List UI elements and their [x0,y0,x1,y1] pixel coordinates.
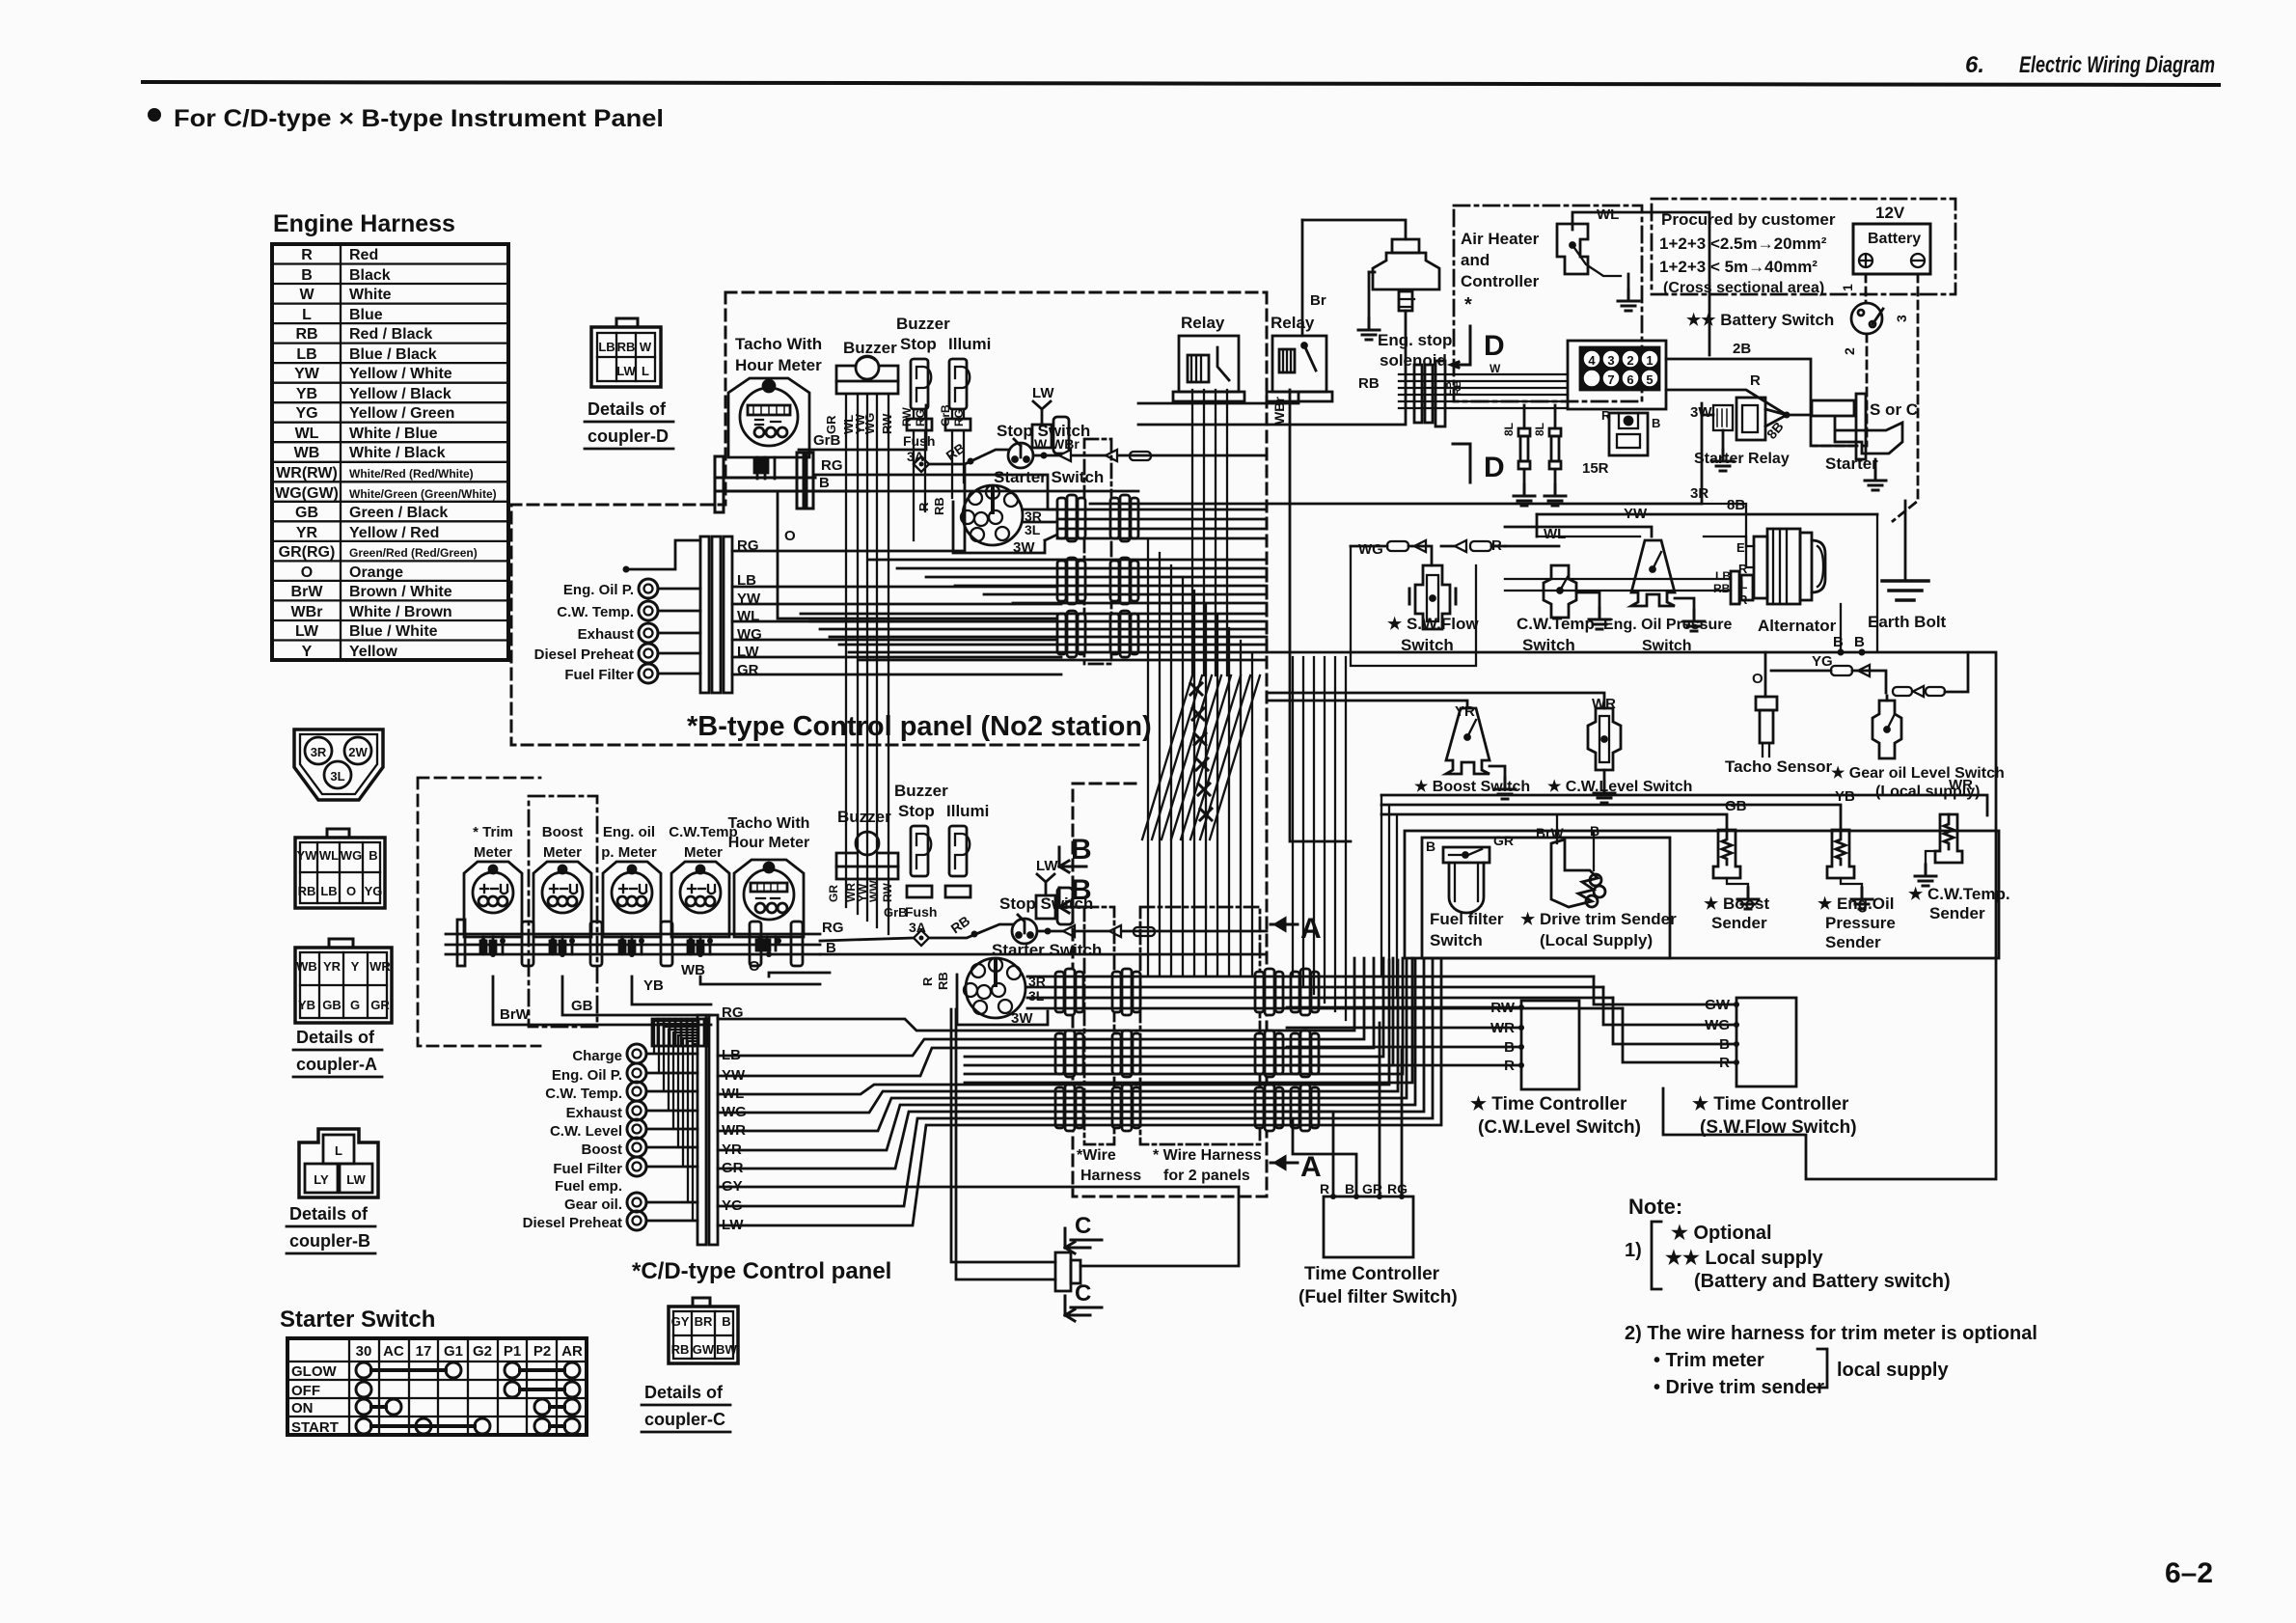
svg-text:★ Drive trim Sender: ★ Drive trim Sender [1520,910,1677,928]
engine coupler feed wires [1399,374,1568,408]
C/D left wire fan [654,1021,697,1221]
C/D meter * Trim [464,862,522,954]
C/D bus flange at 826 [791,922,803,966]
alternator terminal wires [1537,536,1754,546]
svg-text:1+2+3 <2.5m→20mm²: 1+2+3 <2.5m→20mm² [1659,234,1827,253]
svg-text:Hour Meter: Hour Meter [735,356,822,374]
svg-text:WL: WL [1597,206,1619,223]
S.W.Flow box [1351,546,1476,666]
svg-text:B: B [722,1314,730,1329]
battery minus terminal [1911,254,1925,267]
svg-text:Y: Y [351,959,360,974]
svg-text:White/Red (Red/White): White/Red (Red/White) [349,467,474,481]
C/D starter switch [964,958,1025,1018]
svg-text:Pressure: Pressure [1825,914,1896,932]
svg-text:2) The wire harness for trim m: 2) The wire harness for trim meter is op… [1625,1323,2037,1344]
svg-text:RB: RB [295,326,317,343]
fuse feed wires [1524,405,1555,428]
B-type stop switch wire to harness [1033,454,1267,457]
C.W.Level Switch symbol [1588,708,1621,770]
svg-text:WR: WR [369,959,391,974]
svg-text:LW: LW [295,623,319,640]
svg-text:8L: 8L [1533,423,1546,436]
svg-text:WB: WB [296,959,317,974]
Time Controller (C.W.Level Switch) box [1521,1001,1579,1089]
svg-text:Sender: Sender [1711,914,1767,932]
svg-text:WR(RW): WR(RW) [276,465,338,481]
svg-text:(Battery and Battery switch): (Battery and Battery switch) [1694,1271,1951,1292]
svg-text:• Drive trim sender: • Drive trim sender [1654,1377,1824,1398]
svg-text:Tacho Sensor: Tacho Sensor [1725,757,1833,776]
svg-text:3R: 3R [311,745,327,759]
svg-text:GW: GW [693,1342,715,1357]
svg-text:12V: 12V [1875,204,1905,222]
svg-text:C.W. Temp.: C.W. Temp. [557,604,634,620]
svg-text:LW: LW [346,1172,366,1187]
svg-text:Red: Red [349,247,378,263]
boost sender symbol [1713,830,1740,878]
svg-text:YB: YB [1835,788,1855,805]
svg-text:B: B [369,848,377,863]
svg-text:3L: 3L [1025,522,1041,537]
svg-text:WB: WB [294,445,320,461]
C/D bus end flange [457,920,465,966]
svg-text:Red / Black: Red / Black [349,326,432,343]
svg-text:BR: BR [695,1314,713,1329]
svg-text:17: 17 [416,1343,432,1360]
svg-text:Fuel emp.: Fuel emp. [555,1178,622,1195]
svg-text:Starter Relay: Starter Relay [1694,451,1790,467]
svg-text:GR: GR [827,885,840,902]
diagonal crossover bundle with crossing marks [1142,675,1260,839]
drive trim sender symbol [1551,839,1605,907]
C.W.Temp switch ground [1576,592,1599,608]
svg-text:GR: GR [737,662,759,678]
B-type starter switch frame [953,502,1045,553]
svg-text:GLOW: GLOW [291,1363,337,1380]
svg-text:Blue: Blue [349,307,383,323]
sensor terminal circle (Exhaust) [639,623,658,643]
svg-text:RB: RB [671,1342,690,1357]
svg-text:Illumi: Illumi [948,335,991,353]
svg-text:Air Heater: Air Heater [1461,230,1540,248]
svg-text:GB: GB [295,505,318,521]
svg-text:Eng. Oil P.: Eng. Oil P. [563,582,634,598]
svg-text:RG: RG [822,920,844,936]
svg-text:L: L [302,307,312,323]
svg-text:Hour Meter: Hour Meter [728,835,809,851]
svg-text:RW: RW [880,413,894,434]
svg-text:BrW: BrW [500,1006,531,1023]
svg-text:Engine Harness: Engine Harness [273,210,455,237]
svg-text:B: B [1854,634,1865,650]
relay drop wires [1192,390,1227,675]
svg-text:1: 1 [1646,353,1653,368]
svg-text:White / Black: White / Black [349,445,446,461]
note right bracket [1818,1349,1827,1388]
C/D terminal circle (Fuel Filter) [627,1157,646,1176]
B-type harness connector pair row y=602 [1057,558,1085,604]
svg-text:★ Boost: ★ Boost [1704,894,1769,913]
sensor terminal circle (Fuel Filter) [639,664,658,683]
svg-text:WL: WL [295,426,319,442]
air heater ground [1627,274,1630,289]
coupler-C connector (GY BR B / RB GW BW) [693,1298,710,1307]
gear oil connector pair [1893,687,1912,696]
svg-text:Alternator: Alternator [1758,617,1837,635]
C plug wires [951,1009,1055,1279]
eng stop solenoid [1373,239,1439,311]
crossover X marks [1190,683,1202,695]
svg-text:GR: GR [824,415,838,434]
svg-text:Tacho With: Tacho With [735,335,822,353]
B-type harness connector pair row y=657 [1057,611,1085,657]
svg-text:★ Time Controller: ★ Time Controller [1692,1094,1849,1114]
svg-text:AR: AR [561,1343,583,1360]
B-type harness bundle row3 [801,614,1267,660]
svg-text:Relay: Relay [1181,314,1225,332]
svg-text:Illumi: Illumi [946,802,989,820]
svg-text:8L: 8L [1502,423,1516,436]
battery switch [1851,303,1883,334]
svg-text:YB: YB [643,977,664,994]
svg-text:B: B [1833,634,1844,650]
svg-text:O: O [784,528,796,544]
eng oil pressure sender symbol [1827,830,1854,878]
svg-text:G2: G2 [473,1343,492,1360]
C/D terminal circle (Exhaust) [627,1101,646,1120]
svg-text:L: L [335,1143,342,1158]
svg-text:*Wire: *Wire [1077,1147,1116,1164]
svg-text:B: B [1345,1181,1354,1197]
svg-text:Time Controller: Time Controller [1304,1264,1440,1284]
svg-text:Details of: Details of [588,399,667,419]
svg-text:(Cross sectional area): (Cross sectional area) [1663,280,1824,296]
svg-text:WW: WW [867,880,881,902]
alternator LB RB connector [1731,571,1753,604]
solenoid feed wire [1302,220,1406,239]
battery wire 2 [1814,334,1867,446]
svg-text:Stop: Stop [900,335,937,353]
C/D vertical connector strip [697,1015,718,1245]
svg-text:B: B [819,475,830,491]
svg-text:Starter Switch: Starter Switch [994,468,1104,486]
15R protector [1609,413,1648,455]
B-type starter switch [961,485,1023,545]
Eng. Oil Pressure Switch symbol [1631,540,1675,606]
sensor terminal circle (C.W. Temp.) [639,601,658,620]
B-type harness bundle row1 [1057,509,1267,538]
svg-text:★ Gear oil Level Switch: ★ Gear oil Level Switch [1831,765,2005,782]
svg-text:YR: YR [296,525,318,541]
svg-text:R: R [1750,372,1761,389]
svg-text:coupler-B: coupler-B [289,1231,370,1251]
svg-text:Boost: Boost [542,824,584,840]
C/D harness bundle row3 [718,960,1441,1225]
fuel filter switch symbol [1443,847,1490,913]
svg-text:1): 1) [1625,1240,1642,1261]
air heater element [1557,224,1621,276]
C/D bus junction dots [480,938,486,944]
svg-text:GR: GR [370,998,390,1012]
svg-text:Yellow / Red: Yellow / Red [349,525,439,541]
main vertical trunk bundle [1148,540,1252,975]
svg-text:GrB: GrB [884,905,908,920]
starter ground [1874,459,1877,469]
svg-text:★ C.W.Level Switch: ★ C.W.Level Switch [1547,779,1692,795]
svg-text:LB: LB [296,346,316,363]
C/D buzzer [836,832,898,879]
C/D terminal circle (Eng. Oil P.) [627,1063,646,1083]
svg-text:Fush: Fush [903,433,935,449]
svg-text:RB: RB [1452,380,1463,396]
svg-text:Fuel Filter: Fuel Filter [564,667,634,683]
Boost Switch symbol [1446,708,1490,774]
B-type harness connector pair row y=537 [1057,495,1085,541]
coupler-D connector [591,318,661,387]
svg-text:O: O [1752,671,1763,687]
svg-text:6–2: 6–2 [2165,1557,2213,1589]
Starter Switch table contacts [356,1362,580,1434]
svg-text:RG: RG [952,409,966,426]
svg-text:Black: Black [349,267,391,284]
svg-text:Boost: Boost [582,1142,623,1158]
C/D illumi switch [945,826,970,897]
svg-text:WG: WG [1358,541,1383,558]
svg-text:Tacho With: Tacho With [728,815,810,832]
svg-text:WBr: WBr [291,604,323,620]
svg-text:for 2 panels: for 2 panels [1163,1168,1250,1184]
sensor terminal circle (Eng. Oil P.) [639,579,658,598]
svg-text:LB: LB [598,340,615,354]
svg-text:(C.W.Level Switch): (C.W.Level Switch) [1478,1117,1641,1138]
svg-text:YG: YG [295,405,317,422]
wire-harness outer dashed box [1073,292,1267,1197]
fuel filter / drive trim box [1422,838,1670,958]
svg-text:R: R [1601,408,1611,423]
starter motor [1812,394,1902,459]
svg-text:A: A [1300,1151,1322,1183]
svg-text:★★ Local supply: ★★ Local supply [1665,1248,1824,1269]
svg-text:Controller: Controller [1461,272,1540,290]
Eng Oil Pressure switch ground [1675,598,1694,610]
svg-text:GR(RG): GR(RG) [279,544,336,561]
C/D meter bus wires [446,934,820,954]
svg-text:LW: LW [616,364,636,378]
svg-text:(S.W.Flow Switch): (S.W.Flow Switch) [1700,1117,1857,1138]
C.W.Temp sender symbol [1935,814,1962,863]
battery [1853,224,1930,274]
svg-text:WL: WL [319,848,339,863]
svg-text:Meter: Meter [684,844,723,861]
svg-text:8B: 8B [1727,497,1745,513]
svg-text:Y: Y [302,644,313,660]
engine coupler flange [1414,361,1445,426]
starter relay to starter wires [1765,409,1810,426]
svg-text:LW: LW [1036,858,1058,874]
B-type tacho bus wires [715,453,868,512]
svg-text:O: O [346,884,356,898]
svg-text:Electric Wiring Diagram: Electric Wiring Diagram [2019,52,2215,78]
wire B bus [1267,652,1996,1179]
svg-text:Yellow / Black: Yellow / Black [349,386,451,402]
svg-text:Charge: Charge [572,1048,622,1064]
svg-text:Battery: Battery [1868,231,1921,247]
svg-text:YR: YR [1455,703,1475,720]
svg-text:G: G [350,998,360,1012]
svg-text:RB: RB [617,340,636,354]
svg-text:RW: RW [900,407,914,426]
svg-text:WG: WG [341,848,362,863]
svg-text:Fuel Filter: Fuel Filter [553,1161,622,1177]
battery plus terminal [1859,254,1872,267]
coupler-B connector (L / LY LW) [299,1129,378,1197]
air heater dash-dot box [1454,206,1642,401]
wire harness for 2 panels dash-dot box [1140,907,1260,1144]
svg-text:L: L [642,364,649,378]
svg-text:Switch: Switch [1430,931,1483,949]
svg-text:YW: YW [297,848,318,863]
svg-text:GR: GR [1493,833,1514,848]
B-type vertical connector strip [700,536,732,693]
coupler-D engine side (4 3 2 1 / 7 6 5) [1568,341,1666,409]
svg-text:RG: RG [821,457,843,474]
gear oil level switch [1872,701,1901,758]
svg-text:White / Blue: White / Blue [349,426,438,442]
svg-text:Sender: Sender [1825,933,1881,951]
8L fuse grounds [1524,471,1555,484]
svg-text:LW: LW [1032,385,1054,401]
svg-text:GrB: GrB [939,404,952,426]
svg-text:Starter Switch: Starter Switch [280,1307,435,1333]
battery wire 3 [1893,274,1918,521]
B-type tacho gauge [728,378,809,479]
B-type illumi switch [945,359,970,430]
svg-text:3L: 3L [1028,988,1045,1004]
WL wire [1572,212,1709,355]
senders enclosure box [1405,831,1999,958]
svg-text:B: B [1071,874,1092,906]
svg-text:Yellow / White: Yellow / White [349,366,452,382]
C/D sensor connection wires [646,1054,697,1221]
svg-text:Buzzer: Buzzer [837,808,891,826]
sender area left feeds [1381,795,1397,998]
wire Br vertical [1301,220,1304,336]
svg-text:YW: YW [294,366,320,382]
svg-text:Buzzer: Buzzer [894,782,948,800]
svg-text:P2: P2 [533,1343,551,1360]
relay 2 [1267,336,1332,401]
svg-text:★ Boost Switch: ★ Boost Switch [1414,779,1530,795]
svg-text:Sender: Sender [1929,904,1985,922]
WBr long wire [1290,390,1351,841]
B-type harness bundle row2 [868,560,1267,603]
svg-text:(Local Supply): (Local Supply) [1540,931,1653,949]
svg-text:2W: 2W [348,745,368,759]
svg-text:YW: YW [1624,506,1648,522]
starter relay ground [1722,430,1725,450]
S.W.Flow Switch symbol [1409,565,1456,629]
svg-text:Eng. oil: Eng. oil [603,824,655,840]
C/D tacho gauge [734,860,804,950]
svg-text:5: 5 [1646,372,1653,387]
svg-text:Diesel Preheat: Diesel Preheat [523,1215,622,1231]
svg-text:D: D [1484,330,1505,362]
C/D buzzer stop switch [907,826,932,897]
svg-text:6: 6 [1626,372,1633,387]
C plug connector [1055,1252,1080,1291]
svg-text:Eng. Oil P.: Eng. Oil P. [552,1067,622,1084]
svg-text:RB: RB [298,884,316,898]
svg-text:4: 4 [1588,353,1596,368]
Time Controller (S.W.Flow Switch) box [1736,998,1796,1087]
C/D harness connector row y=1092 [1055,1031,1083,1077]
svg-text:R: R [920,977,935,986]
svg-text:W: W [299,287,314,303]
page header rule [143,82,2219,85]
svg-text:YB: YB [296,386,317,402]
svg-text:START: START [291,1419,339,1436]
svg-text:Eng. stop: Eng. stop [1378,331,1452,349]
svg-text:White / Brown: White / Brown [349,604,452,620]
Time Controller (Fuel filter Switch) box [1324,1197,1413,1257]
svg-text:Meter: Meter [474,844,512,861]
svg-text:W: W [1490,362,1501,375]
B-type control panel dashed boundary [511,292,1267,745]
svg-text:2: 2 [1626,353,1633,368]
svg-text:R: R [301,247,313,263]
svg-text:p. Meter: p. Meter [601,844,657,861]
svg-text:B: B [301,267,313,284]
svg-text:Relay: Relay [1271,314,1315,332]
C/D terminal circle (C.W. Level) [627,1119,646,1139]
svg-text:Exhaust: Exhaust [566,1105,622,1121]
svg-text:Blue / White: Blue / White [349,623,438,640]
section A marker lower [1271,1157,1298,1169]
svg-text:Details of: Details of [644,1383,724,1402]
C/D meter C.W.Temp [671,862,729,954]
tacho sensor [1756,697,1777,756]
svg-text:RG: RG [1387,1181,1408,1197]
svg-text:Fuel filter: Fuel filter [1430,910,1504,928]
svg-text:Stop: Stop [898,802,935,820]
relay 1 [1173,336,1244,401]
earth bolt [1904,501,1907,579]
boost switch ground [1490,766,1505,778]
svg-text:B: B [1071,834,1092,866]
svg-text:WBr: WBr [1052,436,1080,452]
svg-text:Buzzer: Buzzer [896,315,950,333]
svg-text:Meter: Meter [543,844,582,861]
svg-text:BW: BW [716,1342,737,1357]
sensor terminal circle (Diesel Preheat) [639,644,658,663]
C/D bus flange at 547 [522,922,533,966]
svg-text:B: B [1652,416,1660,430]
svg-text:Exhaust: Exhaust [578,626,634,643]
svg-text:coupler-D: coupler-D [588,426,669,446]
C.W.Temp Switch symbol [1544,565,1576,618]
svg-text:YG: YG [365,884,383,898]
svg-text:RW: RW [881,883,894,902]
svg-text:RG: RG [914,409,927,426]
svg-text:D: D [1484,452,1505,483]
C/D harness comb connector [652,1019,708,1046]
TC1 feed wires [1287,1007,1521,1065]
svg-text:C.W. Temp.: C.W. Temp. [545,1086,622,1102]
svg-text:O: O [301,564,313,581]
svg-text:local supply: local supply [1837,1360,1949,1381]
svg-text:2B: 2B [1733,341,1751,357]
